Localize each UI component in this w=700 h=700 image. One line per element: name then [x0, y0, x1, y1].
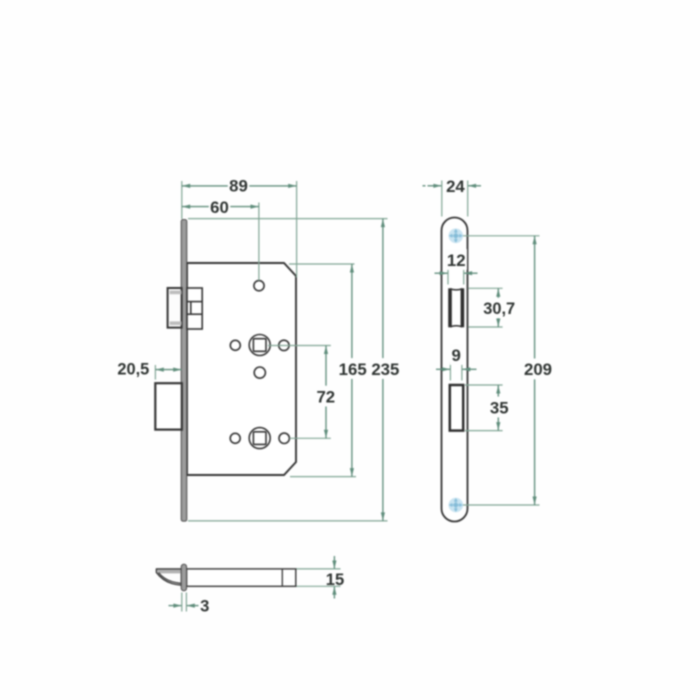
svg-text:20,5: 20,5	[117, 361, 149, 379]
svg-text:165 235: 165 235	[339, 360, 400, 379]
svg-text:209: 209	[524, 360, 552, 379]
svg-text:9: 9	[452, 346, 461, 365]
svg-text:30,7: 30,7	[483, 300, 515, 318]
svg-text:12: 12	[447, 251, 466, 270]
svg-text:72: 72	[316, 387, 335, 406]
svg-text:35: 35	[490, 398, 509, 417]
svg-text:60: 60	[210, 198, 229, 217]
svg-text:3: 3	[200, 596, 209, 615]
svg-text:89: 89	[229, 177, 248, 196]
svg-text:24: 24	[446, 177, 465, 196]
svg-text:15: 15	[326, 570, 344, 589]
